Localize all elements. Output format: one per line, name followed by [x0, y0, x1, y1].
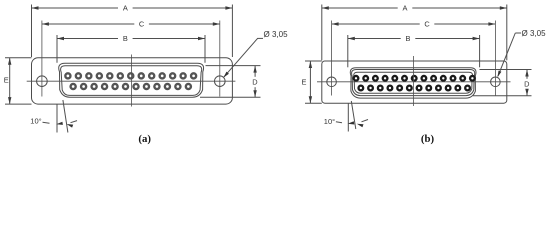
connector flange body (a) [32, 58, 233, 104]
right mounting hole (b) [491, 77, 501, 87]
E extension lines (b) [305, 60, 322, 62]
left mounting hole (b) [327, 77, 337, 87]
dimension D insert height (a) [251, 66, 260, 98]
svg-text:10°: 10° [324, 117, 335, 126]
A extension lines (b) [321, 5, 323, 61]
socket contacts top row (a): 13 ring contacts [65, 73, 196, 78]
right hole crosshair / C extension (b) [494, 21, 496, 96]
left hole crosshair / C extension (a) [41, 21, 43, 97]
dimension A overall length (b) [322, 3, 507, 12]
D-sub insert inner outline (a) [61, 66, 202, 96]
dimension B insert length (b) [348, 34, 480, 43]
svg-text:(a): (a) [138, 133, 151, 145]
svg-text:Ø 3,05: Ø 3,05 [264, 30, 289, 39]
svg-text:B: B [406, 34, 411, 43]
svg-text:E: E [302, 78, 307, 87]
A extension lines (a) [31, 5, 33, 58]
vertical centerline (a) [131, 55, 133, 107]
svg-text:10°: 10° [30, 117, 41, 126]
pin contacts bottom row (b): 12 pins [359, 86, 470, 91]
connector flange body (b) [322, 61, 507, 103]
D-sub insert outer outline (a) [59, 63, 204, 97]
left hole crosshair / C extension (b) [331, 21, 333, 96]
horizontal centerline (a) [27, 80, 236, 82]
D extension lines (a) [206, 65, 261, 67]
svg-text:Ø 3,05: Ø 3,05 [522, 29, 547, 38]
svg-text:C: C [424, 20, 430, 29]
svg-text:E: E [4, 76, 9, 85]
dimension C hole spacing (b) [332, 19, 496, 28]
svg-text:C: C [139, 20, 145, 29]
svg-text:B: B [123, 34, 128, 43]
D-sub insert middle outline (b) [352, 70, 475, 96]
hole diameter leader and label Ø 3,05 (a) [223, 30, 288, 78]
svg-text:D: D [252, 78, 257, 87]
E extension lines (a) [5, 57, 32, 59]
dimension A overall length (a) [32, 3, 233, 12]
dimension B insert length (a) [57, 34, 205, 43]
B extension lines (a) [56, 35, 58, 63]
dimension D insert height (b) [522, 70, 531, 96]
dimension C hole spacing (a) [42, 19, 220, 28]
right mounting hole (a) [215, 76, 226, 87]
dimension E flange height (a) [4, 58, 12, 104]
svg-text:A: A [123, 4, 128, 13]
dimension E flange height (b) [302, 61, 313, 103]
D-sub insert inner outline (b) [354, 72, 473, 93]
vertical centerline (b) [413, 56, 415, 106]
socket contacts bottom row (a): 12 ring contacts [71, 84, 191, 89]
svg-text:A: A [403, 4, 408, 13]
svg-text:D: D [524, 80, 529, 89]
left mounting hole (a) [37, 76, 48, 87]
hole diameter leader and label Ø 3,05 (b) [498, 29, 547, 77]
B extension lines (b) [347, 35, 349, 67]
10 degree draft angle callout (a) [30, 100, 77, 133]
right hole crosshair / C extension (a) [219, 21, 221, 97]
D extension lines (b) [480, 69, 532, 71]
horizontal centerline (b) [317, 81, 511, 83]
svg-text:(b): (b) [421, 133, 435, 145]
10 degree draft angle callout (b) [324, 101, 368, 132]
D-sub insert outer outline (b) [350, 68, 476, 98]
pin contacts top row (b): 13 pins [354, 76, 475, 81]
